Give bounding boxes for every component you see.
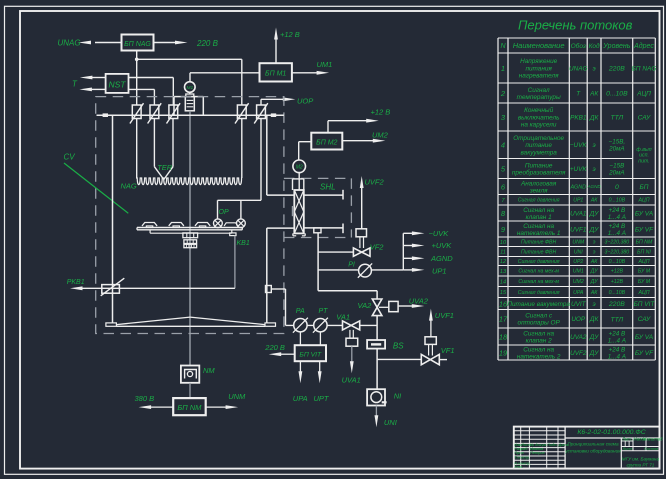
limit switch cam block (230, 233, 236, 236)
svg-text:нагревателя: нагревателя (519, 73, 559, 80)
power supply БП М2 (311, 133, 342, 150)
svg-text:AGND: AGND (430, 254, 453, 263)
VA2 solenoid (389, 301, 398, 311)
wire UPA arrow (299, 361, 301, 372)
svg-text:БП: БП (640, 184, 649, 191)
svg-text:UVF2: UVF2 (570, 350, 587, 357)
wire 380V arrow (151, 406, 173, 408)
svg-text:UP1: UP1 (573, 198, 583, 204)
title block name cell (620, 438, 622, 469)
svg-text:Т.контр.: Т.контр. (514, 454, 530, 459)
svg-text:PA: PA (296, 308, 305, 315)
valve VF2 (353, 248, 361, 256)
svg-text:1...4 А: 1...4 А (608, 353, 626, 360)
svg-text:ДУ: ДУ (589, 334, 599, 341)
svg-text:Принципиальная схема: Принципиальная схема (567, 442, 619, 447)
svg-text:NI: NI (394, 392, 402, 401)
svg-text:МГУ им. Баумана: МГУ им. Баумана (622, 457, 660, 462)
VA2 actuator link (379, 306, 389, 308)
svg-text:ДК: ДК (589, 316, 599, 323)
platform right foot (265, 323, 276, 326)
wire AGND arrow (403, 257, 413, 259)
wire to feedthrough 1 (136, 59, 138, 105)
svg-text:UP2: UP2 (573, 259, 583, 265)
feedthrough insulator 4 (237, 105, 246, 119)
wire to sensor KB (240, 200, 242, 219)
svg-text:Сигнал на мех-м: Сигнал на мех-м (518, 279, 559, 285)
svg-text:ДУ: ДУ (589, 350, 599, 357)
svg-text:UM1: UM1 (573, 269, 584, 275)
svg-text:земля: земля (529, 187, 548, 194)
feedthrough insulator 5 (257, 105, 266, 119)
svg-text:UNM: UNM (228, 392, 246, 401)
roughing pipe horizontal (286, 324, 343, 326)
svg-text:UVF1: UVF1 (570, 226, 587, 233)
svg-text:ДК: ДК (589, 114, 599, 121)
svg-text:Сигнал на мех-м: Сигнал на мех-м (518, 269, 559, 275)
chamber right wall upper (266, 115, 268, 195)
title block outline (514, 427, 660, 469)
svg-text:+12 В: +12 В (371, 108, 391, 117)
gauge PA (294, 319, 307, 332)
svg-text:1: 1 (501, 64, 505, 73)
title block left grid (520, 427, 522, 469)
pipe VA2 to junction (376, 316, 378, 340)
wire T lower arrow (92, 88, 106, 90)
vacuum chamber CV dashed outline (96, 97, 284, 334)
shutter sub-chamber dashed box (284, 177, 352, 179)
VF2 actuator bellows (359, 237, 361, 248)
svg-text:БП VIT: БП VIT (299, 351, 322, 358)
svg-text:NST: NST (109, 79, 127, 89)
power supply БП NAG (122, 35, 154, 51)
svg-text:БП NI: БП NI (637, 249, 651, 255)
optical sensor OP (214, 219, 223, 228)
chamber lid (97, 114, 284, 116)
wire UVF1 arrow (430, 321, 432, 337)
svg-text:Утв.: Утв. (514, 464, 523, 469)
svg-text:э: э (593, 65, 596, 72)
svg-text:Напряжение: Напряжение (520, 58, 558, 65)
svg-text:э: э (593, 301, 596, 308)
wire limit switch horizontal (82, 287, 235, 289)
svg-text:3~220,380: 3~220,380 (605, 249, 630, 255)
junction node (135, 58, 139, 62)
svg-text:220В: 220В (608, 301, 625, 308)
svg-text:220 В: 220 В (264, 343, 285, 352)
svg-text:Сигнал: Сигнал (528, 87, 550, 94)
svg-text:20мА: 20мА (608, 169, 625, 176)
svg-text:PKB1: PKB1 (570, 114, 587, 121)
crucible TER funnel (154, 167, 163, 180)
svg-text:Аналоговая: Аналоговая (520, 180, 557, 187)
svg-text:пит.: пит. (638, 159, 649, 165)
svg-text:PT: PT (319, 308, 329, 315)
svg-text:выключатель: выключатель (518, 114, 560, 121)
power supply БП М1 (260, 63, 292, 81)
svg-text:CV: CV (64, 153, 76, 162)
feedthrough insulator 1 (132, 105, 141, 119)
svg-text:оптопары ОР: оптопары ОР (518, 320, 561, 327)
svg-text:4: 4 (501, 141, 505, 150)
svg-text:UOP: UOP (297, 97, 313, 106)
wire UM2 arrow (342, 140, 373, 142)
svg-text:−UVK: −UVK (429, 229, 450, 238)
wire 220V arrow left (281, 353, 295, 355)
svg-text:Сигнал с: Сигнал с (525, 313, 553, 320)
svg-text:12: 12 (500, 259, 507, 265)
flow table grid (497, 38, 499, 360)
svg-text:+24 В: +24 В (609, 207, 626, 214)
heater coil NAG (136, 178, 242, 185)
svg-text:−15В: −15В (609, 162, 624, 169)
svg-text:M1: M1 (186, 85, 193, 91)
svg-text:KB1: KB1 (237, 240, 250, 247)
svg-text:натекатель 2: натекатель 2 (517, 353, 561, 360)
svg-text:14: 14 (500, 279, 506, 285)
hub slip rings (184, 244, 197, 247)
svg-text:Лит.: Лит. (621, 437, 632, 442)
svg-text:Сигнал на: Сигнал на (523, 330, 554, 337)
svg-text:NM: NM (203, 366, 215, 375)
pipe BS to NI (376, 349, 378, 390)
feedthrough insulator 3 (169, 105, 178, 119)
svg-text:+12 В: +12 В (280, 30, 300, 39)
carousel drive shaft (189, 111, 191, 366)
svg-text:Дата: Дата (558, 442, 570, 447)
svg-text:UOP: UOP (571, 316, 586, 323)
pipe to gauge PI (318, 269, 359, 271)
valve VF1 (421, 354, 430, 364)
high-vacuum pump NI (367, 389, 385, 405)
svg-text:VF2: VF2 (370, 243, 385, 252)
svg-text:АК: АК (589, 90, 599, 97)
valve VA2 (372, 299, 382, 307)
rotary feedthrough of M1 (189, 92, 191, 94)
substrate 3 (195, 223, 210, 226)
svg-text:AGND: AGND (569, 184, 586, 190)
svg-text:Наименование: Наименование (513, 41, 565, 50)
svg-text:UPA: UPA (573, 290, 584, 296)
svg-text:PI: PI (348, 262, 355, 269)
svg-text:э: э (593, 166, 596, 173)
arrow PKB1 (70, 286, 83, 290)
svg-text:0...10В: 0...10В (609, 290, 626, 296)
pipe shutter line to VA2 (318, 290, 377, 292)
svg-text:САУ: САУ (638, 316, 651, 323)
svg-text:+24 В: +24 В (609, 330, 626, 337)
svg-text:UNAG: UNAG (569, 65, 587, 72)
chamber lid port collar (173, 97, 175, 116)
svg-text:АЦП: АЦП (636, 90, 651, 97)
svg-text:Обоз: Обоз (571, 42, 586, 50)
wire UM1 arrow (292, 72, 318, 74)
wire +12V arrow M2 (327, 121, 329, 133)
wire UNAG with arrow (95, 42, 122, 44)
svg-text:БП VIT: БП VIT (634, 301, 656, 308)
svg-text:0...10В: 0...10В (609, 198, 626, 204)
pipe to valve VF2 (318, 251, 353, 253)
wire NM to БП NM (189, 383, 191, 398)
wire UOP arrow (260, 99, 262, 105)
wire +12V arrow up (275, 39, 277, 63)
svg-text:клапан 2: клапан 2 (526, 337, 552, 344)
gauge PI (359, 264, 372, 277)
svg-text:Питание вакуметра: Питание вакуметра (507, 301, 570, 308)
wire to OP sensor (217, 200, 219, 219)
motor M1 (185, 82, 196, 93)
svg-text:UM2: UM2 (573, 279, 584, 285)
svg-text:АК: АК (590, 290, 598, 296)
svg-text:10: 10 (500, 240, 507, 246)
svg-text:VA2: VA2 (358, 301, 373, 310)
svg-text:15: 15 (500, 290, 507, 296)
wire to feedthrough 4 (241, 59, 243, 105)
gauge PT (314, 319, 327, 332)
shutter stem collar (293, 178, 304, 180)
svg-text:питание: питание (525, 142, 552, 149)
svg-text:+UVK: +UVK (570, 166, 588, 173)
svg-text:Питание ФВН: Питание ФВН (521, 240, 556, 246)
svg-text:питания: питания (525, 65, 552, 72)
svg-text:13: 13 (500, 269, 507, 275)
pipe VA1 to main line (360, 324, 377, 326)
svg-text:АЦП: АЦП (638, 290, 650, 296)
svg-text:К6-2-02-01.00.000.ФС: К6-2-02-01.00.000.ФС (577, 429, 645, 436)
pump-out stub of shutter housing (314, 228, 321, 233)
motor M2 (293, 160, 306, 173)
svg-text:−15В,: −15В, (609, 139, 626, 146)
svg-text:UVA1: UVA1 (570, 210, 587, 217)
svg-text:0...10В: 0...10В (606, 91, 628, 98)
svg-text:18: 18 (499, 332, 508, 341)
svg-text:0: 0 (615, 184, 619, 191)
pipe VF1 stub (439, 359, 447, 361)
svg-text:1...4 А: 1...4 А (608, 214, 626, 221)
sensor crystal (237, 219, 246, 228)
svg-text:э: э (593, 240, 596, 246)
shutter bellows SHL (294, 190, 304, 233)
svg-text:БУ VA: БУ VA (635, 210, 653, 217)
carousel support frame (150, 232, 232, 234)
svg-text:вакууметра: вакууметра (520, 149, 557, 156)
svg-text:VF1: VF1 (441, 346, 455, 355)
substrate 2 (169, 223, 184, 226)
svg-text:11: 11 (500, 250, 506, 256)
svg-text:БП М2: БП М2 (316, 139, 337, 146)
svg-text:+24 В: +24 В (609, 346, 626, 353)
svg-text:220В: 220В (608, 66, 625, 73)
VA1 actuator (346, 338, 358, 346)
svg-text:UNI: UNI (574, 249, 583, 255)
svg-text:VA1: VA1 (336, 313, 350, 322)
svg-text:Петров: Петров (530, 450, 545, 455)
shutter stem (298, 173, 300, 191)
wire БП М2 to motor M2 (299, 141, 312, 143)
title block lit/mass/scale cells (621, 446, 659, 448)
svg-text:БП NAG: БП NAG (632, 65, 657, 72)
chamber pump port stub (266, 286, 272, 293)
svg-text:натекатель 1: натекатель 1 (517, 230, 561, 237)
svg-text:БП NAG: БП NAG (124, 41, 151, 48)
substrate 1 (142, 223, 157, 226)
svg-text:3~220,380: 3~220,380 (605, 240, 630, 246)
svg-text:Питание ФВН: Питание ФВН (521, 249, 556, 255)
svg-text:UVA2: UVA2 (570, 334, 587, 341)
wire feedthrough1 to coil (136, 119, 138, 179)
platform left foot (106, 323, 117, 326)
svg-text:+24 В: +24 В (609, 223, 626, 230)
svg-text:АЦП: АЦП (638, 259, 650, 265)
valve VA1 (343, 321, 352, 330)
wire UPT arrow (319, 361, 321, 372)
svg-text:э: э (593, 142, 596, 149)
wire heater bus horizontal (137, 58, 242, 60)
svg-text:БУ М: БУ М (638, 279, 651, 285)
wire sensor bus (218, 199, 262, 201)
VF2 actuator (356, 229, 367, 237)
wire UVA2 arrow (398, 305, 412, 307)
svg-text:САУ: САУ (638, 114, 651, 121)
svg-text:Сигнал давления: Сигнал давления (518, 198, 560, 204)
svg-text:Сигнал на: Сигнал на (523, 223, 554, 230)
svg-text:19: 19 (499, 348, 508, 357)
svg-text:UM1: UM1 (317, 60, 333, 69)
svg-text:M2: M2 (296, 165, 303, 171)
wire БП NAG to heater bus (136, 51, 138, 60)
svg-text:Листов: Листов (643, 446, 658, 451)
trap BS (367, 340, 385, 349)
wire 220V with arrow (154, 42, 177, 44)
svg-text:ТТЛ: ТТЛ (610, 316, 623, 323)
svg-text:БУ VA: БУ VA (635, 334, 653, 341)
svg-text:TER: TER (157, 163, 173, 172)
svg-text:Лист: Лист (622, 446, 634, 451)
VF1 actuator (425, 337, 436, 345)
svg-text:АК: АК (590, 259, 598, 265)
svg-text:+12В: +12В (611, 279, 624, 285)
pipe gauge PI to bus (371, 269, 403, 271)
svg-text:ДУ: ДУ (589, 210, 599, 217)
svg-text:Сигнал на: Сигнал на (523, 346, 554, 353)
wire UVF2 arrow (361, 188, 363, 229)
VF1 actuator bellows (428, 344, 430, 355)
svg-text:на карусели: на карусели (521, 122, 557, 129)
svg-text:UPA: UPA (293, 394, 308, 403)
hub middle flange (184, 240, 197, 244)
svg-text:Сигнал давления: Сигнал давления (518, 259, 560, 265)
svg-text:БУ М: БУ М (638, 269, 651, 275)
wire UNI arrow (375, 406, 377, 417)
svg-text:UVA2: UVA2 (409, 296, 429, 305)
svg-text:БУ VF: БУ VF (635, 226, 654, 233)
svg-text:установки оборудования: установки оборудования (564, 449, 621, 454)
pipe junction to VF1 (377, 358, 421, 360)
wire feedthrough2 into crucible (153, 119, 155, 167)
svg-text:АК: АК (590, 198, 598, 204)
svg-text:ДУ: ДУ (590, 279, 599, 285)
svg-text:380 В: 380 В (135, 394, 155, 403)
wire -UVK arrow (403, 232, 413, 234)
svg-text:0...10В: 0...10В (609, 259, 626, 265)
svg-text:OP: OP (219, 209, 229, 216)
power supply БП NM (173, 398, 206, 415)
carousel hub gearbox (183, 233, 198, 238)
svg-text:BS: BS (393, 342, 404, 351)
wire UVA1 arrow (351, 346, 353, 362)
motor NM (181, 366, 199, 383)
chamber right wall lower (266, 228, 268, 323)
svg-text:БП NM: БП NM (636, 240, 653, 246)
feedthrough insulator 2 (150, 105, 159, 119)
svg-text:UP1: UP1 (432, 266, 447, 275)
wire +UVK arrow (403, 245, 413, 247)
carousel bar (137, 227, 242, 229)
power supply БП VIT (295, 345, 326, 361)
chamber left wall (112, 115, 114, 323)
wire T upper arrow (92, 77, 106, 79)
svg-text:AGND: AGND (586, 184, 601, 189)
svg-text:ТТЛ: ТТЛ (610, 115, 623, 122)
svg-text:Сигнал давления: Сигнал давления (518, 290, 560, 296)
svg-text:Адрес: Адрес (633, 42, 654, 50)
amplifier NST (106, 74, 129, 93)
svg-text:+12В: +12В (611, 269, 624, 275)
svg-text:преобразователя: преобразователя (512, 168, 566, 176)
shutter bottom feet (292, 233, 294, 235)
svg-text:э: э (593, 249, 596, 255)
wire feedthrough5 down (260, 119, 262, 201)
wire UP1 arrow (403, 269, 413, 271)
svg-text:БП М1: БП М1 (265, 71, 286, 78)
svg-text:1...4 А: 1...4 А (608, 337, 626, 344)
svg-text:UVA1: UVA1 (342, 375, 361, 384)
svg-text:UNI: UNI (384, 418, 397, 427)
wire NST to feedthrough 2 (129, 88, 155, 90)
substrate 4 plate (224, 223, 238, 226)
svg-text:Уровень: Уровень (602, 43, 630, 50)
svg-text:температуры: температуры (517, 94, 561, 101)
lid mounting pads (103, 113, 108, 117)
svg-text:UVIT: UVIT (571, 301, 587, 308)
svg-text:NAG: NAG (121, 181, 137, 190)
svg-text:20мА: 20мА (608, 146, 625, 153)
svg-text:220 В: 220 В (196, 39, 219, 48)
svg-text:UNM: UNM (572, 240, 584, 246)
wires gauges to БП VIT (299, 332, 301, 345)
svg-text:Сигнал на: Сигнал на (523, 207, 554, 214)
wire feedthrough3 into crucible (172, 119, 174, 167)
svg-text:UNAG: UNAG (58, 39, 81, 48)
svg-text:Перечень потоков: Перечень потоков (518, 18, 633, 33)
svg-text:Подп.: Подп. (547, 442, 557, 447)
svg-text:Питание: Питание (525, 162, 553, 169)
pipe from chamber port (271, 288, 285, 290)
svg-text:группа РТ 71: группа РТ 71 (626, 462, 654, 467)
svg-text:UM2: UM2 (372, 131, 389, 140)
title block doc row separator (565, 437, 659, 439)
vacuum gauge signal bus (402, 233, 404, 270)
svg-text:БУ VF: БУ VF (635, 350, 654, 357)
platform dish (116, 317, 190, 325)
wire NST to feedthrough 3 (129, 77, 174, 79)
svg-text:Конечный: Конечный (524, 106, 554, 114)
svg-text:клапан 1: клапан 1 (526, 214, 552, 221)
limit switch PKB1 (102, 285, 120, 294)
svg-text:ДУ: ДУ (589, 226, 599, 233)
svg-text:PKB1: PKB1 (67, 279, 85, 286)
VA1 actuator bellows (349, 330, 351, 338)
